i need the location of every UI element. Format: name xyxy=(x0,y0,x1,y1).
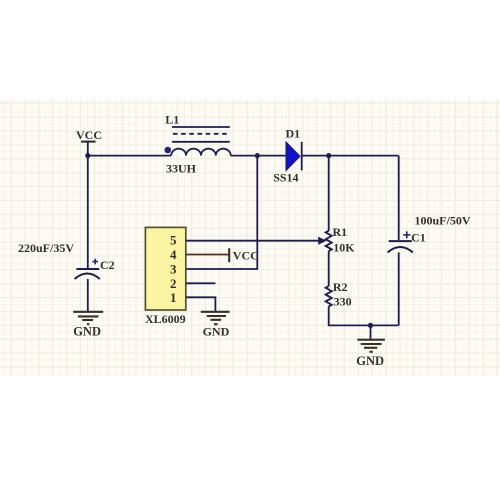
capacitor C2 220uF/35V xyxy=(18,241,115,279)
svg-text:L1: L1 xyxy=(165,112,179,126)
svg-text:33UH: 33UH xyxy=(166,162,197,176)
ground middle xyxy=(201,312,230,339)
svg-text:R1: R1 xyxy=(333,225,348,239)
svg-text:5: 5 xyxy=(170,233,177,248)
ground right xyxy=(356,340,385,368)
svg-text:VCC: VCC xyxy=(76,128,102,142)
svg-text:D1: D1 xyxy=(286,127,301,141)
capacitor C1 100uF/50V xyxy=(388,214,471,253)
svg-text:C2: C2 xyxy=(100,258,115,272)
wire junction to ground xyxy=(370,325,372,339)
svg-text:4: 4 xyxy=(170,247,177,262)
wire main rail VCC to L1 xyxy=(88,155,171,157)
resistor R2 330 xyxy=(326,280,352,309)
svg-text:3: 3 xyxy=(170,261,177,276)
svg-text:R2: R2 xyxy=(333,280,348,294)
power port VCC xyxy=(76,128,102,156)
svg-text:1: 1 xyxy=(170,290,177,305)
svg-text:GND: GND xyxy=(203,325,230,339)
svg-text:2: 2 xyxy=(170,276,177,291)
wire R1 to R2 xyxy=(328,251,330,286)
wire SW drop to pin 3 xyxy=(186,156,257,269)
wire C2 down to ground xyxy=(87,279,89,312)
svg-text:C1: C1 xyxy=(411,231,426,245)
svg-text:100uF/50V: 100uF/50V xyxy=(415,214,471,228)
wire pin 5 to R1 wiper xyxy=(186,240,319,242)
svg-text:VCC: VCC xyxy=(233,249,259,263)
resistor R1 10K potentiometer xyxy=(326,225,356,255)
wire L1 to D1 xyxy=(231,155,286,157)
pin 4 wire xyxy=(186,254,229,256)
node bottom ground junction xyxy=(368,323,373,328)
wire VCC node down to C2 xyxy=(87,156,89,268)
svg-text:GND: GND xyxy=(73,325,101,339)
svg-text:10K: 10K xyxy=(333,241,355,255)
node SW junction xyxy=(255,153,260,158)
diode D1 SS14 xyxy=(273,127,302,185)
pin 2 stub xyxy=(186,282,215,284)
wire output corner down to C1 xyxy=(398,156,400,240)
ground left xyxy=(73,312,103,339)
wire output rail down to R1 xyxy=(328,156,330,231)
wire D1 to output corner xyxy=(302,155,399,157)
wire C1 down to bottom rail xyxy=(398,253,400,326)
svg-text:SS14: SS14 xyxy=(273,171,298,185)
svg-text:XL6009: XL6009 xyxy=(145,312,186,326)
wiper arrow xyxy=(318,237,326,245)
svg-text:330: 330 xyxy=(334,295,352,309)
svg-text:GND: GND xyxy=(356,354,384,368)
node output junction xyxy=(326,153,331,158)
wire R2 to bottom rail xyxy=(329,306,399,325)
inductor L1 33UH xyxy=(165,112,231,175)
pin 1 wire to ground xyxy=(186,297,215,311)
svg-text:220uF/35V: 220uF/35V xyxy=(18,241,74,255)
power port VCC at pin 4 xyxy=(229,248,259,262)
node VCC junction xyxy=(85,153,90,158)
IC U1 XL6009 xyxy=(145,227,186,325)
